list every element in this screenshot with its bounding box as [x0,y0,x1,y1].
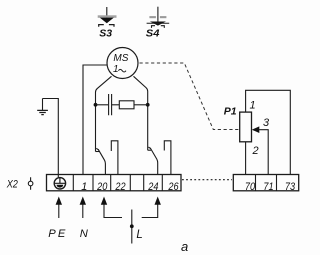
remote strip dividers [256,175,277,191]
wire P1 pin1 to terminal 73 [246,90,291,174]
ground symbol [42,99,44,111]
plug-socket S4 socket bracket [152,26,165,28]
terminal strip X2 dividers [73,175,162,191]
dotted link X2 to remote strip [182,179,232,181]
wire L feed [131,210,133,244]
svg-text:E: E [58,228,66,240]
plug-socket S3 gray bar [98,15,117,17]
svg-text:MS: MS [113,53,128,64]
capacitor C plates [109,94,112,115]
svg-text:N: N [80,228,89,240]
arrow N supply [82,203,84,218]
wire capacitor to resistor [112,104,119,106]
svg-text:70: 70 [245,181,255,193]
wire ground to PE terminal [43,99,59,178]
svg-text:2: 2 [252,145,259,157]
svg-text:71: 71 [263,181,273,193]
remote terminal strip outline [233,175,298,191]
svg-text:a: a [181,239,188,254]
svg-text:1: 1 [81,181,87,193]
switch fixed contact right (to terminal 26) [164,141,171,175]
plug-socket S3 socket bracket [99,25,114,27]
plug-socket S4 gray dashes [149,16,156,18]
terminal strip X2 outline [47,175,182,191]
wire motor bottom-left to left node [96,76,112,151]
resistor R body [119,101,134,109]
svg-text:S4: S4 [146,29,160,40]
node left junction [94,103,98,107]
P1 wiper arrow to terminal 71 [259,130,269,175]
plug-socket S4 vertical lead [157,7,159,24]
svg-text:S3: S3 [99,28,112,39]
svg-text:26: 26 [168,181,179,193]
switch contact left (to terminal 20) [96,151,100,153]
terminal clip symbol beside X2 [28,181,33,186]
plug-socket S3 vertical lead [106,7,108,20]
potentiometer P1 body [240,112,252,142]
switch fixed contact left (to terminal 22) [111,141,118,175]
motor MS circle [107,48,138,79]
svg-text:1: 1 [113,64,119,75]
switch contact right (to terminal 24) [148,149,151,151]
svg-text:3: 3 [263,117,270,129]
svg-text:L: L [136,229,142,241]
plug-socket S3 plug arrow [100,18,114,24]
svg-text:P1: P1 [224,105,237,117]
plug-socket S4 socket line [147,22,170,24]
plug-socket S4 plug arrow [150,22,166,26]
svg-text:73: 73 [285,181,295,193]
wire node to capacitor [96,104,109,106]
wire P1 pin2 to terminal 70 [245,142,247,175]
arrow L to terminal 24 [142,203,158,218]
wire resistor to right node [134,104,148,106]
svg-text:1: 1 [250,100,256,112]
node L junction [130,224,134,228]
arrow L to terminal 20 [104,203,122,218]
dashed link motor to potentiometer [140,63,240,130]
arrow PE supply [58,203,60,218]
svg-text:22: 22 [115,181,126,193]
svg-text:P: P [48,228,56,240]
wire motor bottom-right to right node [134,76,148,150]
node right junction [146,103,150,107]
PE terminal symbol [54,178,65,189]
svg-text:X2: X2 [6,179,18,191]
svg-text:24: 24 [147,181,158,193]
wire motor left to terminal 1 [83,65,107,175]
svg-text:20: 20 [96,181,107,193]
